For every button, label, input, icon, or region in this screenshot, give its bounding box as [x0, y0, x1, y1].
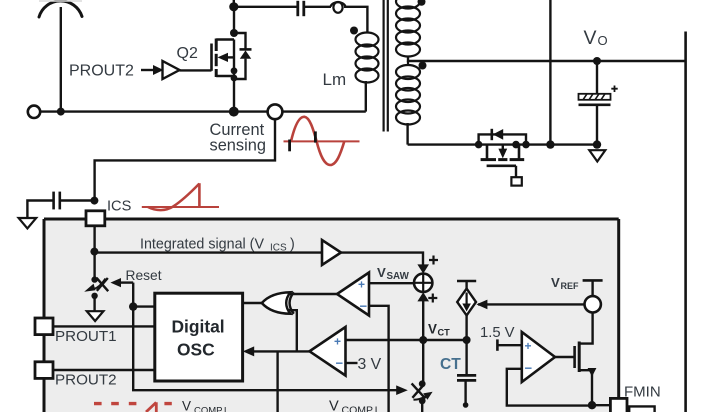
label VCOMP (left, cut off)	[182, 399, 227, 412]
node FMIN	[588, 401, 596, 409]
svg-text:1.5 V: 1.5 V	[480, 325, 515, 341]
svg-text:3 V: 3 V	[358, 356, 382, 373]
primary phase dot	[350, 27, 358, 35]
wire VREF to FET drain	[579, 313, 592, 344]
svg-text:V: V	[182, 399, 191, 412]
svg-text:PROUT2: PROUT2	[69, 63, 134, 80]
wire from top to SR rail	[549, 0, 551, 145]
wire Q2 drain up / source down	[233, 7, 235, 33]
node	[593, 140, 601, 148]
wire Lr to transformer	[344, 7, 367, 33]
wire to FMIN pin	[592, 404, 610, 406]
inductor Lr (single loop, cut off)	[331, 2, 346, 13]
svg-text:Reset: Reset	[126, 268, 162, 283]
wire comparator - input down	[369, 306, 389, 412]
secondary phase dot top	[418, 0, 426, 6]
wire comparator output to OR input	[290, 293, 338, 295]
label VCT	[428, 322, 450, 338]
svg-text:SAW: SAW	[387, 271, 410, 282]
wire input vertical	[60, 7, 62, 112]
wire secondary bottom lead	[406, 123, 408, 145]
wire secondary ground rail	[408, 143, 597, 145]
ground (ICS cap)	[19, 218, 37, 228]
waveform integrated current	[142, 183, 219, 210]
center tap wire to VO rail	[408, 56, 686, 62]
label VREF	[551, 275, 579, 291]
svg-text:+: +	[334, 334, 341, 348]
svg-text:V: V	[551, 275, 560, 290]
wire OR lower input	[289, 310, 297, 351]
capacitor ICS integrator	[27, 192, 94, 218]
svg-text:CT: CT	[438, 328, 451, 338]
wire summing to comparator +	[369, 282, 414, 284]
wire primary bottom to rail	[365, 81, 367, 112]
wire node down to bottom bus	[133, 307, 398, 391]
oscillator block Digital OSC	[155, 293, 243, 381]
svg-text:V: V	[377, 265, 386, 280]
waveform VCOMP dashes (red)	[94, 402, 172, 412]
svg-text:COMP,I: COMP,I	[342, 404, 378, 412]
pin ICS	[86, 211, 105, 226]
buffer integrated signal	[322, 240, 341, 265]
current sensing node circle	[268, 104, 283, 119]
source arc (cut off at top)	[39, 1, 82, 17]
svg-text:−: −	[336, 356, 344, 371]
node ICS cap junction	[90, 197, 98, 205]
wire node to OSC left	[133, 305, 155, 307]
svg-text:Lm: Lm	[323, 70, 347, 89]
wire VO to cap	[596, 61, 598, 94]
summing junction	[414, 256, 438, 341]
node on rail	[57, 108, 65, 116]
secondary phase dot mid	[419, 62, 427, 70]
node	[546, 140, 554, 148]
transistor Q2 (N-MOSFET with body diode)	[212, 39, 238, 82]
label Integrated signal (V ICS)	[140, 237, 295, 254]
svg-text:FMIN: FMIN	[624, 384, 661, 401]
svg-text:CT: CT	[440, 356, 461, 373]
svg-text:−: −	[360, 299, 368, 314]
svg-text:+: +	[525, 339, 532, 353]
transformer core	[384, 0, 388, 132]
label VO	[584, 27, 608, 49]
wire PROUT2 to buffer with arrowhead	[141, 65, 164, 75]
svg-text:Q2: Q2	[177, 45, 198, 62]
svg-text:sensing: sensing	[210, 136, 267, 154]
wire diamond to VREF (arrow into diamond)	[476, 300, 584, 310]
wire feedback - input	[507, 369, 592, 406]
node reset/OSC	[129, 302, 137, 310]
svg-text:PROUT1: PROUT1	[55, 328, 117, 345]
waveform current sine	[284, 117, 360, 165]
comparator VSAW (points left)	[337, 273, 369, 316]
svg-text:OSC: OSC	[177, 340, 215, 360]
wire OR output to OSC	[243, 302, 264, 304]
wire current sense to ICS	[95, 119, 275, 200]
Q2 body diode	[230, 29, 252, 79]
wire VCT rail	[346, 339, 467, 341]
svg-text:+: +	[358, 278, 365, 292]
transistor SR (sync rectifier) body diode	[475, 129, 530, 149]
resistor FMIN (cut off)	[629, 406, 654, 412]
svg-text:V: V	[584, 27, 597, 49]
svg-text:V: V	[428, 322, 437, 337]
node integrated tap	[90, 248, 98, 256]
VREF source circle	[583, 280, 603, 312]
svg-text:V: V	[329, 398, 339, 412]
node top rail junction	[229, 2, 238, 11]
label Current sensing	[210, 121, 267, 155]
transformer secondary top winding	[396, 0, 420, 57]
comparator 3V (points left)	[310, 327, 382, 376]
node VO	[593, 57, 601, 65]
wire ICS pin down	[93, 226, 95, 280]
switch CT discharge	[412, 340, 433, 412]
wire cap to Lr	[304, 6, 331, 8]
label VSAW	[377, 265, 410, 282]
switch reset (across ICS cap)	[84, 276, 108, 299]
capacitor Cout (polarized)	[579, 86, 618, 105]
label VCOMP input (cut off)	[329, 398, 377, 412]
transformer secondary bottom winding	[396, 61, 420, 125]
arrowhead into CT switch	[396, 385, 408, 395]
wire 1.5V input	[480, 325, 522, 351]
capacitor CT	[440, 340, 476, 408]
wire buffer to gate	[180, 69, 212, 71]
svg-text:Integrated signal (V: Integrated signal (V	[140, 237, 264, 253]
wire 3V comparator output to OSC (arrow)	[243, 346, 310, 412]
svg-text:O: O	[598, 33, 608, 48]
svg-text:PROUT2: PROUT2	[55, 372, 117, 389]
or gate (points left)	[262, 292, 294, 314]
wire reset arrow	[110, 278, 133, 307]
IC block body	[44, 219, 619, 412]
transistor SR (rotated N-MOSFET)	[481, 141, 525, 186]
pin PROUT2	[35, 362, 155, 389]
transistor FMIN follower	[555, 342, 596, 405]
node Q2 source on rail	[229, 107, 239, 117]
ground (secondary)	[589, 150, 605, 161]
wire integrated signal	[95, 251, 322, 253]
capacitor Cr (series resonant)	[298, 1, 304, 16]
pin PROUT1	[35, 318, 155, 345]
wire top rail	[234, 6, 297, 8]
node VCT	[419, 336, 427, 344]
svg-text:COMP,I: COMP,I	[194, 406, 227, 412]
wire to reset ground	[93, 296, 95, 311]
svg-text:Digital: Digital	[172, 317, 225, 337]
buffer driver Q2 gate	[163, 61, 180, 79]
wire cap to ground rail	[596, 105, 598, 145]
svg-text:−: −	[525, 361, 533, 376]
pin FMIN	[610, 398, 627, 412]
wire buffer to summing	[341, 253, 423, 265]
svg-text:ICS: ICS	[107, 199, 132, 215]
terminal circle	[28, 106, 40, 118]
transformer primary winding Lm	[356, 33, 379, 83]
current source diamond	[457, 281, 476, 340]
ground (reset)	[87, 311, 104, 321]
node CT branch	[463, 336, 471, 344]
wire output right vertical	[684, 32, 687, 412]
svg-text:REF: REF	[561, 281, 580, 291]
comparator 1.5V (points right)	[522, 332, 555, 382]
svg-text:): )	[290, 237, 295, 253]
wire primary bottom rail	[40, 110, 365, 112]
